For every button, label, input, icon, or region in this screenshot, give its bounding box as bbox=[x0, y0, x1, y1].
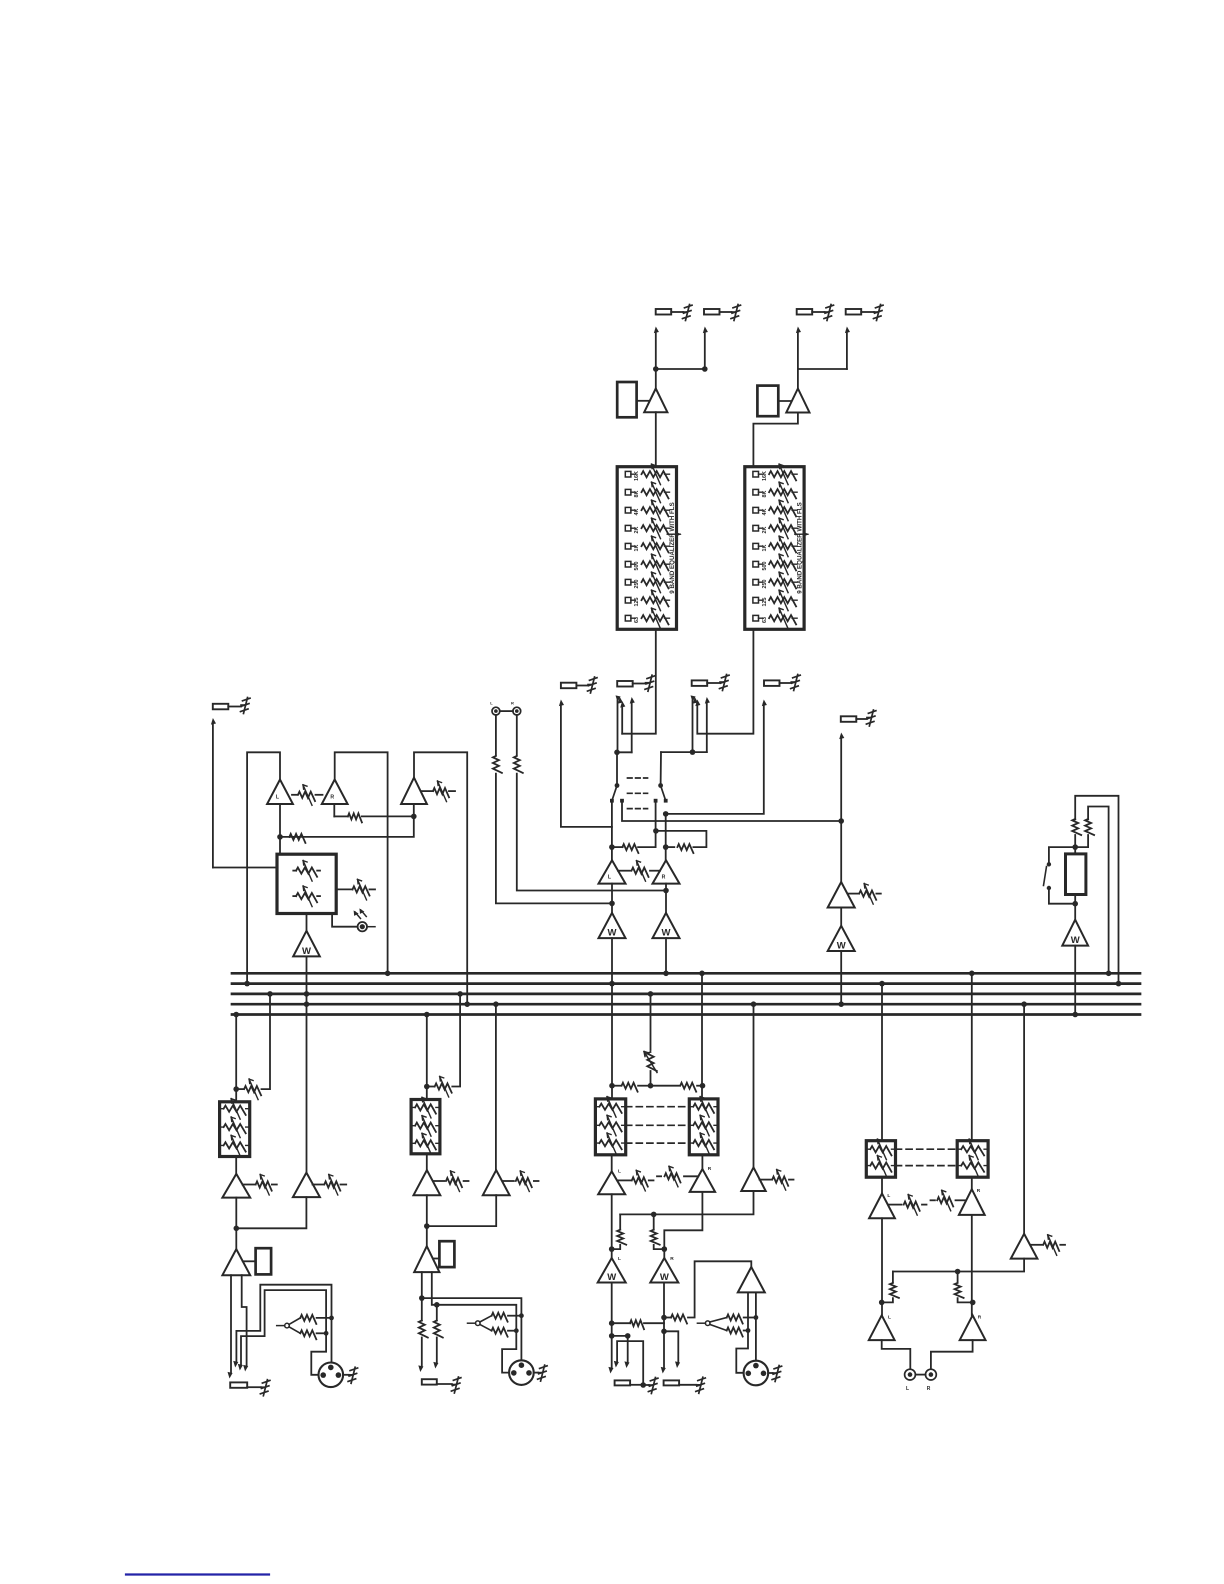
wire ch3 jackR ring wire bbox=[664, 1331, 680, 1368]
bus line 1 bbox=[232, 972, 1140, 975]
resistor R-ch2bal2 bbox=[434, 1321, 443, 1338]
switch SW1a lever bbox=[612, 786, 617, 801]
wire U13 to bus bbox=[1074, 946, 1076, 1015]
resistor R-P2 bbox=[514, 756, 523, 773]
svg-text:W: W bbox=[1071, 935, 1080, 946]
wire V1 down bbox=[611, 801, 613, 861]
wire ch2 xlr inner bbox=[437, 1305, 517, 1373]
node bus4 x467 bbox=[464, 1001, 470, 1007]
equalizer EQ-ch1 bbox=[220, 1099, 250, 1157]
variable resistor VR-pan2 bbox=[427, 994, 460, 1097]
jack J10 monitor bbox=[213, 704, 241, 710]
node ch2 xlr tap-1 bbox=[419, 1295, 425, 1301]
wire J10 to box bbox=[213, 867, 277, 869]
wire EQ2 return arm stub bbox=[0, 0, 1, 1]
svg-text:W: W bbox=[837, 941, 846, 952]
op-amp U7 aux bbox=[828, 882, 855, 908]
jack J2 phones-L ring bbox=[704, 309, 732, 315]
ground at J5 bbox=[588, 677, 598, 693]
wire ch2 bus tap bbox=[426, 1015, 428, 1100]
node EQ-L junction B bbox=[702, 366, 708, 372]
wire J10 down bbox=[210, 718, 216, 868]
node rail-L bbox=[614, 750, 620, 756]
node ampR in bbox=[663, 844, 669, 850]
phantom switch ch1 bbox=[277, 1318, 301, 1333]
node fader bottom bbox=[1072, 901, 1078, 907]
wire ch4R bus tap bbox=[971, 973, 973, 1140]
meter amp U23 ch3 M-L bbox=[598, 1256, 626, 1283]
resistor R-ph2b bbox=[492, 1328, 517, 1337]
box side of U2 bbox=[757, 386, 778, 417]
op-amp U30 ch4 out-R bbox=[960, 1315, 986, 1341]
node bus2 x247 bbox=[244, 981, 250, 987]
wire J1 contact bbox=[653, 326, 659, 369]
meter amp U12 mon bbox=[293, 931, 320, 957]
node RCA-R join bbox=[663, 888, 669, 894]
node ch1 phantom-2 bbox=[324, 1331, 329, 1336]
node ch1 mix bbox=[234, 1226, 240, 1232]
node ch3 jackL ring bbox=[609, 1333, 615, 1339]
wire U9 feedback loop bbox=[247, 752, 280, 983]
variable resistor VR-ch1A bbox=[243, 1175, 277, 1196]
wire U12 to ch1B bbox=[306, 956, 308, 1172]
switch SW1b lever bbox=[661, 786, 666, 801]
bus line 4 bbox=[232, 1003, 1140, 1006]
op-amp U10 mon-R bbox=[322, 780, 348, 805]
jack J13 ch3 L-in bbox=[615, 1380, 644, 1385]
wire U4 out bbox=[665, 884, 667, 913]
svg-text:16K: 16K bbox=[762, 471, 768, 481]
gang dashes ch3 bbox=[626, 1107, 690, 1143]
wire U24 down bbox=[660, 1283, 666, 1374]
wire EQ2 output bbox=[694, 629, 753, 733]
wire ch2 xlr outer bbox=[422, 1298, 522, 1363]
node bus4 x496 bbox=[493, 1001, 499, 1007]
wire bypass top bbox=[1049, 847, 1075, 864]
node ch3 phantom-1 bbox=[754, 1315, 759, 1320]
node ch3 phantom-2 bbox=[746, 1328, 751, 1333]
wire insert-L rail bbox=[617, 697, 635, 753]
node bus2 x1118 bbox=[1116, 981, 1122, 987]
wire U28 in rail bbox=[893, 1259, 1024, 1272]
op-amp U3 main-L bbox=[599, 860, 626, 883]
jack J14 ch3 R-in bbox=[664, 1380, 697, 1385]
node ch3 res1 bbox=[609, 1320, 615, 1326]
node fader top bbox=[1072, 844, 1078, 850]
resistor R-fad1 bbox=[1072, 819, 1081, 835]
node bus1 x702 bbox=[699, 971, 705, 977]
op-amp U26 ch4-L bbox=[869, 1193, 895, 1218]
variable resistor VR-ch1B bbox=[313, 1175, 347, 1196]
meter amp U5 M-L bbox=[599, 913, 626, 939]
phantom switch ch2 bbox=[468, 1316, 492, 1331]
svg-text:500: 500 bbox=[762, 562, 768, 571]
node bus4 x306 bbox=[304, 1001, 310, 1007]
ground at J10 bbox=[241, 698, 251, 714]
jack J12 ch2 line-in bbox=[422, 1379, 452, 1384]
op-amp U11 mon-aux bbox=[401, 778, 427, 804]
wire U25 out loop bbox=[688, 1261, 751, 1317]
ground at J9 bbox=[866, 710, 876, 726]
variable resistor VR-ch2A bbox=[434, 1171, 469, 1192]
node bus3 x650 bbox=[648, 991, 654, 997]
wire EQ1 return arm bbox=[619, 701, 625, 734]
resistor R-ch3c bbox=[612, 1214, 627, 1249]
XLR connector X1 bbox=[319, 1363, 344, 1388]
resistor R-ch2bal1 bbox=[419, 1321, 428, 1338]
wire ch3 ringL down bbox=[623, 1336, 629, 1368]
jack J7 insert-R bbox=[692, 680, 720, 686]
resistor R-ph2a bbox=[492, 1313, 522, 1322]
node rail R2 bbox=[651, 1212, 657, 1218]
svg-text:R: R bbox=[511, 701, 514, 706]
wire U18 out bbox=[427, 1195, 496, 1226]
ground at J14 bbox=[696, 1377, 706, 1393]
wire U6 to bus bbox=[665, 938, 667, 973]
wire box to LED bbox=[332, 914, 358, 927]
wire ch3 gndloop L bbox=[613, 1341, 643, 1385]
wire P1 down bbox=[495, 715, 497, 755]
variable resistor VR-main bbox=[618, 861, 660, 882]
ground at X1 bbox=[343, 1367, 358, 1383]
svg-text:R: R bbox=[927, 1386, 931, 1392]
op-amp U15 ch1-B bbox=[293, 1173, 320, 1198]
wire J6 tip contact bbox=[614, 695, 622, 752]
box side of U1 bbox=[617, 382, 636, 417]
node ch3 ringL bbox=[625, 1333, 631, 1339]
svg-text:L: L bbox=[887, 1193, 890, 1199]
XLR connector X3 bbox=[744, 1361, 769, 1386]
variable resistor VR-ch2B bbox=[503, 1171, 539, 1192]
phantom switch ch3 bbox=[697, 1318, 726, 1331]
node R2 tap bbox=[653, 828, 659, 834]
wire U11 feedback loop bbox=[414, 752, 467, 1004]
op-amp U1 EQ-L bbox=[644, 389, 667, 413]
wire fader loop inner bbox=[1088, 807, 1109, 974]
wire U9 out bbox=[279, 804, 281, 854]
jack J8 tape-out bbox=[764, 680, 791, 686]
wire U17 out bbox=[426, 1195, 428, 1246]
variable resistor VR-mon2 bbox=[422, 781, 456, 802]
node pole L bbox=[615, 783, 620, 788]
RCA jack P3 out-L bbox=[905, 1369, 916, 1392]
ground at J6 bbox=[645, 675, 655, 691]
node bus5 x236 bbox=[233, 1012, 239, 1018]
wire EQ1 output bbox=[622, 629, 656, 733]
pad box ch1 bbox=[256, 1248, 272, 1274]
node bus2 x882 bbox=[879, 981, 885, 987]
wire ch2 bal-2 end bbox=[432, 1338, 438, 1369]
wire EQ-ch3L out bbox=[611, 1155, 613, 1172]
node ch3 res2 bbox=[661, 1315, 667, 1321]
node ch3L mix-in bbox=[609, 1083, 615, 1089]
bus line 5 bbox=[232, 1013, 1140, 1016]
wire P1 to U3 bbox=[496, 774, 612, 904]
op-amp U27 ch4-R bbox=[959, 1188, 985, 1215]
node bypass-2 bbox=[1047, 886, 1051, 890]
wire ch3 jackL ring wire bbox=[612, 1335, 628, 1337]
op-amp U17 ch2-A bbox=[414, 1170, 441, 1195]
wire bypass bottom bbox=[1049, 888, 1075, 904]
variable resistor VR-ch3L bbox=[618, 1170, 654, 1191]
svg-text:9 BAND EQUALIZER WITH FLS: 9 BAND EQUALIZER WITH FLS bbox=[796, 502, 803, 593]
equalizer EQ-ch2 bbox=[411, 1097, 440, 1153]
switch gang dashes bbox=[628, 778, 648, 809]
svg-text:250: 250 bbox=[634, 580, 640, 589]
wire EQ-L amp output join bbox=[656, 368, 705, 370]
node bus2 x612 bbox=[609, 981, 615, 987]
resistor R-P1 bbox=[493, 756, 502, 773]
wire U14 out bbox=[235, 1198, 237, 1250]
XLR connector X2 bbox=[509, 1360, 534, 1385]
node U11 in bbox=[411, 814, 417, 820]
svg-text:9 BAND EQUALIZER WITH FLS: 9 BAND EQUALIZER WITH FLS bbox=[669, 502, 676, 593]
wire amp U1 to node bbox=[655, 369, 657, 389]
op-amp U29 ch4 out-L bbox=[869, 1315, 895, 1341]
wire ch3R bus tap bbox=[701, 973, 703, 1099]
wire U2 to EQ2 bbox=[753, 413, 798, 467]
wire ch1 bal-1 bbox=[226, 1275, 232, 1379]
variable resistor VR-ch4R bbox=[931, 1190, 966, 1211]
variable resistor VR-aux bbox=[849, 884, 881, 905]
wire EQ-ch3R out bbox=[701, 1155, 703, 1169]
wire ch3C bus tap bbox=[753, 1004, 755, 1167]
resistor R-ch3e bbox=[664, 1315, 687, 1324]
wire U29 to RCA bbox=[882, 1340, 911, 1369]
node bus1 x971 bbox=[969, 971, 975, 977]
resistor R-ch3a bbox=[612, 1083, 651, 1092]
node ch2 xlr tap-2 bbox=[434, 1302, 440, 1308]
wire contactB-L to aux bbox=[622, 801, 842, 821]
node bus4 x1024 bbox=[1021, 1001, 1027, 1007]
mic amp U19 ch2 bbox=[414, 1246, 439, 1272]
wire J8 to mix node bbox=[666, 699, 767, 814]
wire U15 out bbox=[236, 1197, 306, 1228]
node ch3 center bbox=[648, 1083, 654, 1089]
resistor R-mixL bbox=[612, 844, 656, 853]
equalizer EQ-ch4L bbox=[866, 1139, 895, 1177]
op-amp U20 ch3-L bbox=[598, 1169, 625, 1195]
ground at X2 bbox=[534, 1365, 547, 1381]
meter amp U24 ch3 M-R bbox=[650, 1256, 678, 1283]
ground at J2 bbox=[731, 305, 741, 321]
contact SW1a-1 bbox=[610, 799, 614, 803]
resistor R-ph1b bbox=[300, 1330, 326, 1339]
svg-text:125: 125 bbox=[762, 598, 768, 607]
svg-text:L: L bbox=[888, 1315, 891, 1321]
jack J6 insert-L bbox=[617, 681, 645, 687]
svg-text:R: R bbox=[670, 1256, 674, 1262]
wire U26 out bbox=[881, 1218, 883, 1315]
node bus3 x460 bbox=[457, 991, 463, 997]
wire box to U12 bbox=[306, 914, 308, 931]
wire EQ-ch4R out bbox=[971, 1177, 973, 1189]
node ch4 rail bbox=[955, 1269, 961, 1275]
node bus1 x666 bbox=[663, 971, 669, 977]
jack J1 phones-L tip bbox=[656, 309, 683, 315]
node U9 out bbox=[277, 834, 283, 840]
op-amp U22 ch3-C bbox=[741, 1167, 765, 1191]
svg-text:R: R bbox=[977, 1188, 981, 1194]
node bus4 x841 bbox=[838, 1001, 844, 1007]
wire box-U1 link bbox=[637, 400, 650, 402]
node RCA-L join bbox=[609, 901, 615, 907]
node bus3 x306 bbox=[304, 991, 310, 997]
node aux tap bbox=[838, 818, 844, 824]
RCA jack P2 R bbox=[511, 701, 521, 715]
wire ch4L bus tap bbox=[881, 984, 883, 1141]
svg-text:W: W bbox=[660, 1272, 669, 1283]
ground at J12 bbox=[451, 1377, 461, 1393]
svg-text:500: 500 bbox=[634, 562, 640, 571]
wire fader to U13 bbox=[1074, 895, 1076, 920]
svg-text:250: 250 bbox=[762, 580, 768, 589]
mic amp U16 ch1 bbox=[222, 1249, 250, 1275]
wire ch1B from U12 bbox=[0, 0, 1, 1]
resistor R-ch3d bbox=[651, 1214, 665, 1249]
equalizer EQ-ch3L bbox=[595, 1097, 625, 1155]
node ch4 R mix bbox=[970, 1300, 976, 1306]
node J13 gnd bbox=[640, 1382, 646, 1388]
node bus1 x388 bbox=[385, 971, 391, 977]
wire U25 bal-1 bbox=[736, 1292, 748, 1372]
node bus3 x270 bbox=[267, 991, 273, 997]
wire J4 contact bbox=[798, 326, 850, 369]
variable resistor VR-pan1 bbox=[236, 994, 270, 1100]
contact SW1a-2 bbox=[620, 799, 624, 803]
op-amp U18 ch2-B bbox=[483, 1170, 510, 1195]
wire fader loop outer bbox=[1075, 796, 1118, 984]
LED D1 bbox=[354, 908, 375, 931]
node mix R bbox=[663, 811, 669, 817]
wire V4 down bbox=[665, 814, 667, 860]
RCA jack P4 out-R bbox=[926, 1369, 937, 1392]
wire J9 down bbox=[838, 732, 844, 882]
jack J5 line-L bbox=[561, 683, 588, 689]
jack J4 phones-R ring bbox=[846, 309, 874, 315]
node ch2 mix bbox=[424, 1223, 430, 1229]
node pole R bbox=[658, 783, 663, 788]
svg-text:W: W bbox=[607, 1272, 616, 1283]
wire switch pole R bbox=[660, 752, 662, 785]
wire ch1 xlr loop inner bbox=[237, 1290, 326, 1375]
wire U5 to bus bbox=[611, 938, 613, 984]
footer blue rule bbox=[126, 1573, 269, 1575]
wire R2 join bbox=[1075, 835, 1088, 854]
resistor R-ch4a bbox=[882, 1272, 899, 1303]
bus line 3 bbox=[232, 993, 1140, 996]
variable resistor VR-vol-L bbox=[293, 861, 320, 882]
gang dashes ch4 bbox=[896, 1149, 958, 1165]
variable resistor VR-vol-R bbox=[293, 886, 320, 907]
wire ch2 bal-2 bbox=[432, 1272, 437, 1320]
node ch3R mix-in bbox=[700, 1083, 706, 1089]
node bus5 x1075 bbox=[1072, 1012, 1078, 1018]
wire U21 out bbox=[664, 1192, 702, 1258]
node U23 in bbox=[609, 1246, 615, 1252]
ground at X3 bbox=[768, 1366, 781, 1382]
wire J5 to switch bbox=[558, 699, 612, 827]
wire contact1-R down bbox=[655, 801, 657, 847]
ground at J11 bbox=[260, 1380, 270, 1396]
variable resistor VR-ch3 bbox=[644, 1052, 657, 1086]
ground at J3 bbox=[824, 305, 834, 321]
variable resistor VR-ch3C bbox=[760, 1170, 794, 1191]
jack J11 ch1 line-in bbox=[230, 1382, 261, 1387]
wire U25 bal-2 bbox=[755, 1292, 757, 1363]
resistor R-ph3a bbox=[727, 1315, 756, 1324]
meter amp U13 master bbox=[1062, 920, 1088, 946]
node ch1 phantom-1 bbox=[329, 1316, 334, 1321]
node EQ-L junction A bbox=[653, 366, 659, 372]
node ch2 phantom-2 bbox=[514, 1328, 519, 1333]
jack J3 phones-R tip bbox=[797, 309, 825, 315]
node rail-R bbox=[690, 749, 696, 755]
resistor R-ch3mix bbox=[612, 1320, 664, 1329]
node ch2 phantom-1 bbox=[519, 1313, 524, 1318]
resistor R-fad2 bbox=[1085, 819, 1094, 835]
wire ch3L bus tap bbox=[611, 984, 613, 1099]
RCA jack P1 L bbox=[490, 701, 500, 715]
wire EQ-ch4L out bbox=[881, 1177, 883, 1193]
equalizer EQ-ch4R bbox=[957, 1139, 988, 1177]
node ch3 jackR ring bbox=[661, 1329, 667, 1335]
meter amp U8 aux bbox=[828, 926, 855, 952]
node bus1 x1108 bbox=[1106, 971, 1112, 977]
node ch4 L mix bbox=[879, 1300, 885, 1306]
9-band equalizer EQ2 bbox=[745, 464, 810, 629]
resistor R-ch3b bbox=[651, 1083, 703, 1092]
wire U3 out bbox=[611, 884, 613, 913]
wire P3-P4 link bbox=[915, 1374, 925, 1376]
svg-text:L: L bbox=[906, 1386, 909, 1392]
wire U30 to RCA bbox=[931, 1340, 973, 1369]
wire U27 out bbox=[971, 1215, 973, 1315]
svg-text:16K: 16K bbox=[634, 471, 640, 481]
resistor R-ph3b bbox=[727, 1328, 748, 1337]
op-amp U28 ch4-C bbox=[1011, 1234, 1038, 1259]
wire U7 to U8 bbox=[840, 908, 842, 926]
op-amp U21 ch3-R bbox=[690, 1166, 715, 1192]
wire P1-P2 link bbox=[500, 710, 513, 712]
svg-text:R: R bbox=[978, 1315, 982, 1321]
wire U1 to EQ1 bbox=[655, 412, 657, 467]
ground at J1 bbox=[683, 305, 693, 321]
wire U19 pad link bbox=[434, 1258, 440, 1260]
svg-text:L: L bbox=[618, 1169, 621, 1175]
node bypass-1 bbox=[1047, 862, 1051, 866]
op-amp U9 mon-L bbox=[267, 780, 293, 805]
svg-text:W: W bbox=[662, 928, 671, 939]
wire ch3 vr tap bbox=[650, 994, 652, 1050]
wire ch2 bal-1 bbox=[421, 1272, 423, 1320]
wire U22 in rail bbox=[620, 1191, 753, 1214]
wire ch1 bal-2 bbox=[242, 1275, 249, 1372]
wire U10 out bbox=[333, 804, 335, 816]
svg-text:W: W bbox=[608, 928, 617, 939]
variable resistor VR-ch4L bbox=[888, 1195, 927, 1216]
wire U8 to bus bbox=[840, 951, 842, 1004]
wire ch1 xlr loop outer bbox=[232, 1285, 331, 1368]
node bus4 x753 bbox=[751, 1001, 757, 1007]
wire ch1 bus tap bbox=[235, 1015, 237, 1102]
contact SW1b-2 bbox=[664, 799, 668, 803]
svg-text:R: R bbox=[662, 875, 666, 881]
resistor R-mixR bbox=[656, 831, 707, 853]
resistor R-mon2 bbox=[289, 834, 305, 843]
node ch1 pan bbox=[233, 1086, 239, 1092]
op-amp U2 EQ-R bbox=[786, 389, 809, 413]
